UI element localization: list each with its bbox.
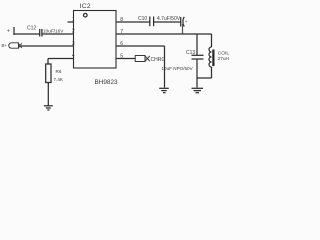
svg-text:6: 6 (120, 41, 123, 47)
wire cap down to pin7 rail (182, 24, 184, 34)
wire B+ top rail to pin2 (14, 33, 40, 35)
capacitor 4.7uF polarized plates (180, 17, 182, 27)
pin 1 marker dot on IC2 (84, 13, 88, 17)
capacitor C13 branch (196, 34, 198, 55)
svg-text:C13: C13 (186, 50, 195, 56)
node + terminal plate (13, 27, 15, 35)
svg-text:3: 3 (72, 41, 75, 47)
wire R6 to ground (47, 83, 49, 106)
resistor R6 (46, 64, 51, 83)
inductor COIL 27uH (211, 34, 213, 47)
svg-text:COIL: COIL (218, 50, 230, 56)
wire pin1 stub (68, 21, 74, 23)
svg-text:B+: B+ (2, 43, 8, 48)
capacitor C10 plates (149, 17, 151, 27)
svg-text:BH9823: BH9823 (95, 79, 119, 86)
svg-text:7.4K: 7.4K (54, 77, 64, 82)
svg-text:2: 2 (72, 29, 75, 35)
svg-text:5: 5 (120, 54, 123, 60)
svg-text:7: 7 (120, 29, 123, 35)
svg-text:4: 4 (72, 53, 75, 59)
wire bottom node (197, 77, 212, 79)
wire pin4 to R6 (48, 58, 74, 60)
svg-text:+: + (185, 19, 188, 24)
wire B+ tag to pin3 (21, 45, 74, 47)
wire pin8 to C10 (116, 21, 150, 23)
wire pin6 down (116, 45, 165, 47)
svg-text:10uF NPO/50V: 10uF NPO/50V (162, 66, 194, 71)
svg-text:8: 8 (120, 17, 123, 23)
wire C10 to 4.7uF cap (154, 21, 181, 23)
node B+ tag (9, 43, 22, 48)
node CHRG tag (135, 56, 150, 62)
svg-text:C12: C12 (27, 26, 36, 32)
capacitor C12 plates (39, 29, 41, 37)
inductor core bar (212, 50, 214, 67)
svg-text:4.7uF/50V: 4.7uF/50V (157, 16, 181, 22)
ground under pin6 branch (159, 87, 169, 89)
wire pin7 rail (116, 33, 212, 35)
ground under R6 (44, 105, 53, 107)
wire pin5 to CHRG tag (116, 58, 135, 60)
svg-text:CHRG: CHRG (151, 57, 166, 63)
IC IC2 (BH9823) body (74, 11, 117, 69)
svg-text:+: + (7, 28, 10, 34)
wire C12 to pin2 (42, 33, 74, 35)
svg-text:27uH: 27uH (218, 56, 230, 62)
ground bottom right (192, 87, 204, 89)
svg-text:C10: C10 (138, 16, 147, 22)
svg-text:1: 1 (72, 17, 75, 23)
svg-text:R6: R6 (56, 69, 62, 74)
svg-text:IC2: IC2 (80, 3, 91, 10)
svg-text:10uF/16V: 10uF/16V (43, 29, 64, 34)
